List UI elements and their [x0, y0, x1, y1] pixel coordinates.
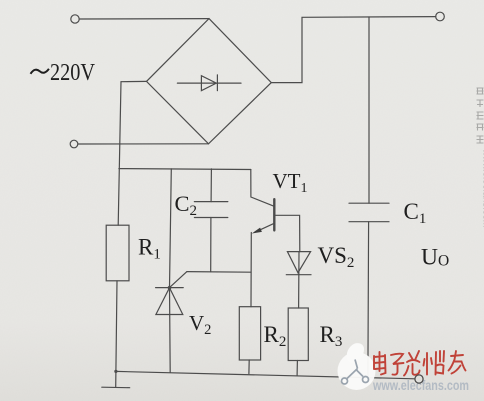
watermark vertical edge text: [477, 88, 484, 143]
svg-text:220V: 220V: [50, 60, 96, 86]
bottom output terminal T4 over watermark: [415, 375, 423, 383]
wire emitter to R2: [250, 233, 252, 307]
wire V2 branch from rail: [170, 169, 172, 288]
input terminal T2: [70, 140, 78, 148]
wire bridge left vertex stub: [121, 80, 147, 82]
label ~220V: [31, 60, 96, 86]
emitter arrowhead: [252, 228, 262, 234]
wire C2 to link node: [210, 218, 212, 272]
junction dot V2 cathode: [168, 286, 172, 290]
resistor R1: [106, 225, 129, 281]
wire R1 to bottom rail: [116, 281, 117, 372]
wire VT1 base lead: [274, 215, 300, 251]
wire R3 to bottom rail: [296, 361, 298, 376]
svg-text:www.elecfans.com: www.elecfans.com: [481, 148, 484, 228]
wire bridge right vertex to output terminal: [271, 17, 436, 83]
wire C2 branch from rail: [210, 169, 212, 202]
capacitor C1: [349, 203, 389, 222]
input terminal T1: [71, 15, 79, 23]
resistor R2: [239, 307, 260, 360]
resistor R3: [288, 308, 308, 361]
wire V2 cathode diagonal link: [170, 272, 187, 288]
zener diode V2: [156, 288, 184, 315]
wire VS2 to R3: [298, 252, 300, 308]
wire T1 to bridge top: [79, 18, 209, 20]
watermark text dianzifashaoyou: [374, 351, 466, 376]
wire V2 to bottom rail: [169, 288, 172, 373]
transistor VT1 base bar: [273, 199, 275, 230]
junction dot left rail: [114, 370, 117, 373]
watermark logo circle: [338, 343, 376, 390]
wire T2 to bridge bottom: [78, 143, 209, 145]
svg-text:www.elecfans.com: www.elecfans.com: [372, 378, 469, 393]
transistor VT1 emitter: [255, 223, 275, 232]
wire link to emitter node: [187, 271, 251, 274]
wire C1 branch from top rail: [368, 17, 370, 203]
ground: [102, 371, 130, 387]
wire collector from rail: [251, 170, 274, 207]
wire left vertical to R1: [118, 82, 121, 226]
bridge diode D: [177, 75, 241, 91]
wire R2 to bottom rail: [248, 360, 250, 374]
output terminal T3: [436, 12, 445, 21]
wire C1 to bottom rail: [367, 222, 370, 378]
bridge rectifier diamond: [147, 19, 272, 144]
bottom rail: [116, 371, 415, 378]
zener diode VS2: [286, 252, 311, 275]
capacitor C2: [194, 202, 227, 218]
wire mid rail: [119, 168, 251, 171]
